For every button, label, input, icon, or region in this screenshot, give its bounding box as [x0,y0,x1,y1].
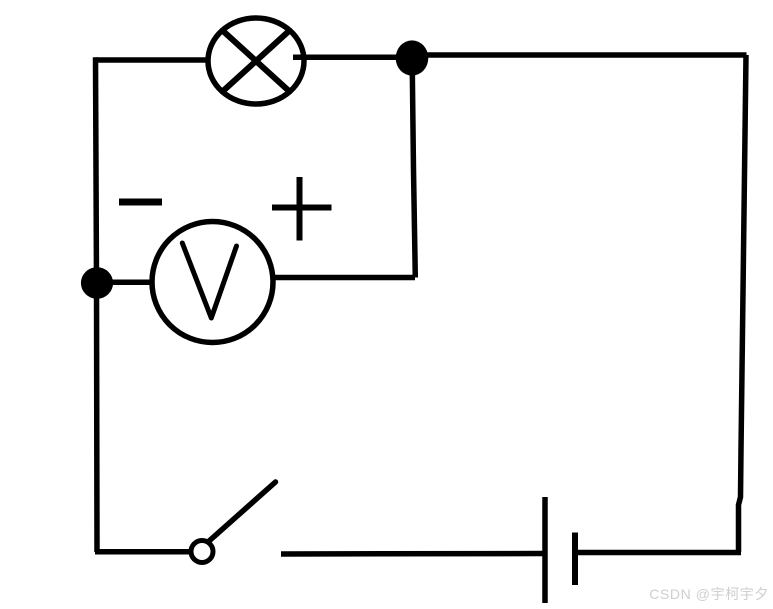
node A (junction dot top) [396,40,429,75]
battery BT1 short plate (negative) [572,533,578,586]
watermark CSDN [649,584,769,604]
voltmeter V1 circle [152,222,273,343]
battery BT1 long plate (positive) [542,497,548,603]
switch S1 lever (open) [209,482,276,542]
wire: top-left horizontal from corner to lamp [96,57,220,63]
wire: left vertical from top-left corner to bottom-left corner [96,57,98,552]
wire: right vertical [739,55,747,552]
lamp L1 (circle with X) [208,18,304,104]
wire: node A to top-right corner [412,52,747,58]
wire: voltmeter to vertical branch corner [271,275,415,281]
switch S1 pivot circle [191,541,213,563]
node B (junction dot left) [81,267,113,299]
wire: vertical branch from node A down [412,70,415,278]
voltmeter V1 letter V [182,243,236,318]
wire: switch gap to battery long plate [281,551,543,557]
wire: bottom-left corner to switch [95,549,192,555]
label: minus sign [119,199,162,206]
wire: bottom-right horizontal (battery to right corner) [576,550,741,556]
wire: lamp to node A [293,54,412,60]
label: plus sign [272,177,332,241]
wire: node B to voltmeter [97,280,156,286]
